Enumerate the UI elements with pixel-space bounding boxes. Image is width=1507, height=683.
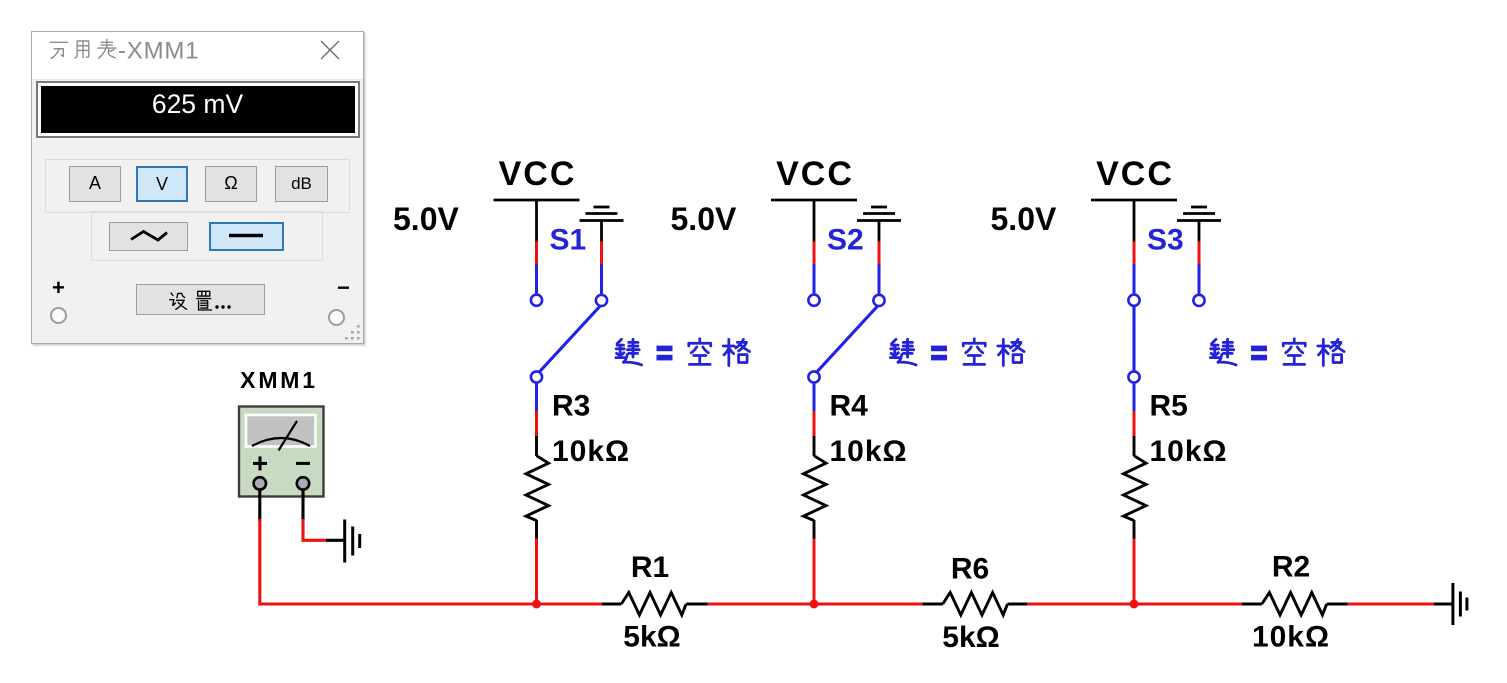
wire R1 to node B [708, 602, 814, 605]
svg-text:R5: R5 [1150, 390, 1188, 423]
value 10kΩ R5 [1150, 435, 1228, 468]
label VCC 1 [499, 155, 577, 193]
resistor R2 [1242, 593, 1348, 616]
wire switch pole to resistor R4 [813, 383, 816, 437]
ground symbol at XMM1 [345, 520, 360, 563]
svg-text:10kΩ: 10kΩ [1252, 621, 1330, 654]
wire XMM1 minus lead [303, 490, 345, 541]
label R6 [951, 553, 989, 586]
wire VCC to switch throw1 (red) 2 [813, 242, 816, 294]
wire ground to switch throw2 (red) 1 [600, 242, 603, 294]
wire ground to switch throw2 (red) 3 [1198, 242, 1201, 294]
wire resistor R5 to bus (red) [1133, 539, 1136, 605]
button A (current) [69, 166, 121, 202]
minus terminal jack [328, 309, 345, 326]
wire VCC to switch throw1 (red) 3 [1133, 242, 1136, 294]
label VCC 3 [1096, 155, 1174, 193]
svg-text:R2: R2 [1272, 551, 1310, 584]
value 5.0V 3 [991, 201, 1057, 237]
wire VCC to switch throw1 (red) 1 [535, 242, 538, 294]
label R3 [552, 390, 590, 423]
svg-text:S3: S3 [1147, 224, 1184, 257]
power VCC symbol 3 [1091, 200, 1177, 242]
junction node A (R3/R1) [532, 600, 541, 609]
svg-text:5.0V: 5.0V [393, 201, 459, 237]
wire switch pole to resistor R3 [535, 383, 538, 437]
wire resistor R3 to bus (red) [535, 539, 538, 605]
svg-text:R6: R6 [951, 553, 989, 586]
label key = space 1 [616, 339, 750, 366]
label R1 [631, 551, 669, 584]
ground symbol 3 [1177, 207, 1221, 242]
svg-text:5.0V: 5.0V [671, 201, 737, 237]
label R2 [1272, 551, 1310, 584]
multimeter reading display 625 mV [38, 83, 358, 136]
wire node C to R2 [1134, 602, 1242, 605]
svg-text:R3: R3 [552, 390, 590, 423]
wire bus node A to R1 [537, 602, 603, 605]
waveform group box [91, 211, 323, 261]
resistor R3 [526, 436, 549, 539]
label R4 [830, 390, 869, 423]
value 5kOhm R6 [942, 621, 999, 654]
label key = space 2 [890, 339, 1024, 366]
plus terminal jack [50, 307, 67, 324]
resistor R4 [804, 436, 827, 539]
label S3 [1147, 224, 1184, 257]
svg-text:XMM1: XMM1 [240, 367, 318, 393]
value 5.0V 2 [671, 201, 737, 237]
plus terminal label [52, 275, 65, 301]
value 5kOhm R1 [623, 621, 680, 654]
wire ground to switch throw2 (red) 2 [878, 242, 881, 294]
svg-text:10kΩ: 10kΩ [830, 435, 908, 468]
switch S1 [531, 295, 607, 383]
button V (voltage, selected) [136, 166, 188, 202]
value 10kΩ R3 [552, 435, 630, 468]
wire R6 to node C [1027, 602, 1134, 605]
wire node B to R6 [814, 602, 923, 605]
svg-text:S1: S1 [550, 224, 587, 257]
power VCC symbol 2 [771, 200, 857, 242]
label XMM1 [240, 367, 318, 393]
ground symbol right [1453, 583, 1467, 625]
svg-text:10kΩ: 10kΩ [552, 435, 630, 468]
junction node B (R4 bus) [810, 600, 819, 609]
label S2 [827, 224, 864, 257]
dialog title bar [32, 32, 363, 80]
dialog title text 万用表-XMM1 [47, 35, 247, 65]
multimeter dialog window XMM1 [31, 31, 364, 344]
resistor R1 [602, 593, 708, 616]
svg-text:VCC: VCC [499, 155, 577, 193]
value 10kOhm R2 [1252, 621, 1330, 654]
svg-text:5.0V: 5.0V [991, 201, 1057, 237]
mode group box [45, 159, 350, 213]
svg-text:VCC: VCC [776, 155, 854, 193]
svg-text:-XMM1: -XMM1 [118, 37, 199, 64]
button AC (sine) [109, 222, 188, 251]
button Ohm (resistance) [205, 166, 257, 202]
switch S3 [1128, 295, 1204, 383]
svg-text:R4: R4 [830, 390, 869, 423]
label key = space 3 [1210, 339, 1344, 366]
value 5.0V 1 [393, 201, 459, 237]
resistor R6 [923, 593, 1028, 616]
svg-text:R1: R1 [631, 551, 669, 584]
ground symbol 2 [857, 207, 901, 242]
label S1 [550, 224, 587, 257]
wire R2 to right ground (red) [1348, 602, 1452, 605]
resize grip [343, 323, 363, 343]
ground symbol 1 [580, 207, 624, 242]
button DC (selected) [209, 222, 285, 251]
power VCC symbol 1 [494, 200, 580, 242]
switch S2 [808, 295, 884, 383]
svg-text:5kΩ: 5kΩ [623, 621, 680, 654]
wire XMM1 plus lead [260, 490, 537, 604]
instrument XMM1 multimeter icon [239, 407, 324, 497]
junction node C (R5 bus) [1130, 600, 1139, 609]
settings button 设置... [136, 284, 265, 316]
wire switch pole to resistor R5 [1133, 383, 1136, 437]
value 10kΩ R4 [830, 435, 908, 468]
svg-text:S2: S2 [827, 224, 864, 257]
wire resistor R4 to bus (red) [813, 539, 816, 605]
svg-text:VCC: VCC [1096, 155, 1174, 193]
button dB [275, 166, 328, 202]
label R5 [1150, 390, 1188, 423]
minus terminal label [337, 275, 350, 301]
svg-text:10kΩ: 10kΩ [1150, 435, 1228, 468]
resistor R5 [1124, 436, 1147, 539]
svg-text:5kΩ: 5kΩ [942, 621, 999, 654]
label VCC 2 [776, 155, 854, 193]
dialog close button X [319, 39, 341, 61]
